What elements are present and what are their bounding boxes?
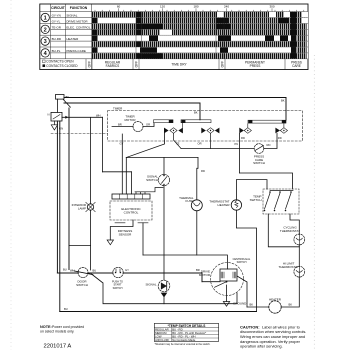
svg-text:HEATER: HEATER	[218, 203, 231, 207]
svg-text:NOTE:: NOTE:	[40, 325, 52, 329]
svg-text:WH: WH	[70, 269, 75, 273]
svg-text:GY-YL: GY-YL	[52, 20, 61, 24]
svg-text:FUSE: FUSE	[185, 199, 193, 203]
perforation dotted edge right	[313, 55, 315, 350]
wire hi-limit to heater	[281, 277, 299, 307]
wire control pin bus	[102, 171, 131, 173]
svg-text:GROUND: GROUND	[233, 302, 247, 306]
timer chart bars row 2b	[92, 30, 308, 35]
svg-text:BK: BK	[289, 303, 293, 307]
svg-text:BK: BK	[250, 303, 254, 307]
wire GY drop to control	[121, 134, 123, 194]
timer chart bars row 1b drive motor	[92, 18, 308, 24]
timer chart bars row 2a elec control	[92, 24, 308, 30]
wire WH from terminal	[62, 116, 103, 118]
wire diagonal from terminal	[63, 99, 70, 107]
chart header text	[51, 6, 88, 10]
wire timer motor to cam bar 1	[143, 123, 154, 127]
drive motor dashed circle	[211, 263, 244, 296]
svg-text:MOTOR: MOTOR	[199, 273, 211, 277]
wire control pin C	[131, 172, 133, 194]
svg-text:on select models only.: on select models only.	[40, 330, 74, 334]
wire left vertical 2	[59, 121, 61, 312]
signal buzzer	[158, 280, 170, 292]
svg-text:GY-YN: GY-YN	[52, 14, 61, 18]
wire lamp vertical upper	[90, 118, 92, 204]
wire control pin header	[135, 188, 163, 195]
svg-text:GY: GY	[125, 268, 129, 272]
timer chart bars row 1a signal	[92, 12, 308, 18]
svg-text:HEATER: HEATER	[66, 37, 79, 41]
bottom bus wire	[60, 311, 257, 313]
wire press care left	[181, 148, 254, 150]
svg-text:TIME DRY: TIME DRY	[171, 62, 187, 66]
wire control to motor feed	[142, 223, 144, 255]
timer contact group G1	[164, 128, 169, 134]
wire left vertical 3	[68, 108, 70, 270]
chart column and row grid	[40, 4, 308, 70]
signal switch	[158, 174, 169, 185]
wire long mid horizontal	[126, 157, 198, 159]
svg-text:SWITCH: SWITCH	[253, 161, 265, 165]
wire supply down to cam bar 3	[285, 98, 287, 121]
svg-text:SWITCH: SWITCH	[250, 198, 262, 202]
svg-text:BU-PL: BU-PL	[52, 49, 61, 53]
svg-text:No Contacts Made: No Contacts Made	[172, 338, 196, 342]
wire G3 drop press care feed	[239, 133, 241, 173]
wire press care right	[264, 133, 277, 148]
timer cam bar 2	[181, 120, 211, 123]
wire color code labels	[48, 95, 293, 311]
wire thermal fuse down	[196, 211, 198, 255]
terminal block L1	[56, 95, 65, 100]
svg-text:RD: RD	[278, 136, 282, 140]
svg-text:OFF: OFF	[220, 61, 224, 67]
svg-text:N: N	[48, 113, 50, 117]
svg-text:BU: BU	[93, 269, 97, 273]
svg-text:OFF: OFF	[87, 61, 91, 67]
perforation dotted edge left	[10, 0, 12, 350]
control terminal strip	[112, 194, 150, 199]
svg-text:BU: BU	[64, 307, 68, 311]
svg-text:operation after servicing.: operation after servicing.	[240, 344, 283, 349]
wire thermostat heater feed	[236, 180, 267, 200]
wire G1 drop and diagonal	[126, 133, 164, 157]
svg-text:RD: RD	[201, 169, 205, 173]
signal switch wire	[163, 158, 165, 281]
svg-text:300: 300	[269, 5, 274, 9]
wire lamp vertical lower	[90, 210, 92, 245]
svg-text:CONTACTS OPEN: CONTACTS OPEN	[46, 60, 74, 64]
svg-text:*Resistor may be internal or e: *Resistor may be internal or external to…	[155, 343, 211, 346]
svg-text:CIRCUIT: CIRCUIT	[51, 6, 66, 10]
bottom U loop	[92, 274, 238, 304]
svg-text:60: 60	[117, 5, 121, 9]
svg-text:OFF: OFF	[134, 61, 138, 67]
wire motor top feed	[143, 255, 227, 269]
wire G2 drop	[210, 133, 212, 148]
wire thermostat heater to motor wrap	[236, 210, 256, 311]
contacts legend	[43, 60, 79, 68]
svg-text:HEATER: HEATER	[269, 297, 282, 301]
chart black column press care	[291, 12, 296, 59]
svg-text:SWITCH: SWITCH	[237, 261, 247, 264]
wire temp switch second exit	[268, 214, 299, 247]
motor centrifugal blade	[226, 281, 228, 283]
svg-text:GY: GY	[120, 142, 124, 146]
svg-text:PRESS-CARE: PRESS-CARE	[66, 49, 86, 53]
wire to temp switch	[240, 173, 293, 189]
wire door switch row	[57, 272, 78, 274]
push to start switch	[113, 267, 123, 277]
timer contact group G2	[201, 128, 206, 134]
drive motor body	[220, 269, 237, 281]
temp switch internals	[270, 190, 293, 192]
wire BK supply top	[64, 97, 286, 99]
svg-text:TIMER: TIMER	[113, 106, 123, 110]
svg-text:GN: GN	[59, 127, 63, 131]
motor left lead	[202, 281, 220, 283]
timer dashed box	[108, 111, 303, 142]
timer chart bars row 3a heater	[92, 36, 288, 42]
bar row separator lines	[92, 18, 308, 53]
circled circuit numbers 1-4	[41, 13, 49, 57]
chart section boundary lines	[136, 12, 224, 59]
wire control pin B	[125, 158, 127, 195]
svg-text:THERMOSTAT: THERMOSTAT	[278, 265, 298, 269]
temp switch dashed box	[263, 189, 299, 214]
svg-text:RD: RD	[241, 136, 245, 140]
svg-text:BK: BK	[281, 99, 285, 103]
svg-text:BR: BR	[196, 268, 200, 272]
thermal fuse feed	[197, 158, 198, 200]
wire cycling to hi-limit	[298, 245, 300, 267]
svg-text:SIGNAL: SIGNAL	[66, 14, 77, 18]
svg-text:OR: OR	[198, 142, 202, 146]
svg-text:3: 3	[44, 39, 47, 45]
wire door to start switch	[88, 272, 113, 274]
svg-text:BR: BR	[118, 123, 122, 127]
svg-text:CARE: CARE	[292, 64, 301, 68]
svg-text:BU: BU	[63, 268, 67, 272]
wire left vertical 1	[56, 121, 58, 273]
svg-text:4: 4	[44, 51, 48, 57]
svg-text:OR: OR	[146, 123, 150, 127]
svg-text:AIR FLUFF: AIR FLUFF	[155, 338, 169, 342]
svg-text:THERMOSTAT: THERMOSTAT	[280, 229, 300, 233]
svg-text:PRESS: PRESS	[250, 64, 261, 68]
svg-text:WH: WH	[96, 114, 101, 118]
svg-text:LAMP: LAMP	[78, 207, 86, 211]
chart outer frame	[40, 4, 308, 70]
svg-text:DRIVE MOTOR: DRIVE MOTOR	[66, 20, 88, 24]
console dashed boundary left	[51, 133, 108, 135]
cycling thermostat	[294, 234, 305, 245]
svg-text:120: 120	[160, 5, 165, 9]
svg-text:RD: RD	[267, 143, 271, 147]
timer motor	[133, 122, 143, 132]
thermal fuse	[191, 200, 202, 211]
right sliver	[307, 12, 308, 59]
svg-text:FABRICS: FABRICS	[106, 64, 120, 68]
svg-text:180: 180	[193, 5, 198, 9]
motor right lead to heater drop	[237, 276, 247, 307]
svg-text:SWITCH: SWITCH	[146, 178, 158, 182]
svg-text:SIGNAL: SIGNAL	[145, 283, 156, 287]
legend row cells	[86, 59, 285, 70]
motor ground	[226, 285, 228, 302]
row 3a right hatch	[297, 36, 309, 42]
wire terminal down	[56, 99, 58, 112]
timer chart bars row 3b	[92, 41, 308, 47]
timer chart bars row 4b	[92, 53, 308, 59]
ground arrow at power cord	[51, 121, 57, 130]
svg-text:BU-RD: BU-RD	[52, 37, 62, 41]
caution text block	[240, 324, 306, 348]
svg-text:TE: TE	[176, 142, 180, 146]
circuit wire code / function labels	[52, 14, 91, 53]
dryness sensor wire and arrow	[110, 220, 133, 240]
svg-text:BK: BK	[194, 111, 198, 115]
press care switch	[254, 144, 264, 154]
svg-text:ELEC. CONTROL: ELEC. CONTROL	[66, 25, 91, 29]
door switch	[78, 268, 88, 278]
thermostat heater	[231, 200, 241, 210]
svg-text:240: 240	[224, 5, 229, 9]
svg-text:SWITCH: SWITCH	[113, 287, 123, 290]
svg-text:FUNCTION: FUNCTION	[70, 6, 88, 10]
wire control feed vertical	[101, 117, 103, 172]
svg-text:2201017 A: 2201017 A	[44, 344, 72, 350]
timer cam bar 1	[154, 120, 174, 123]
svg-text:SWITCH: SWITCH	[76, 283, 88, 287]
svg-text:BK: BK	[66, 95, 70, 99]
timer contact group G4	[275, 128, 280, 134]
chart minute scale ruler	[95, 5, 304, 12]
wire temp switch to cycling thermostat	[290, 214, 299, 234]
wire heater left to motor	[247, 306, 269, 308]
terminal block neutral	[51, 112, 62, 121]
svg-text:CONTROL: CONTROL	[124, 210, 139, 214]
heater	[269, 301, 281, 313]
wire start switch to motor	[123, 273, 202, 282]
svg-text:SENSOR: SENSOR	[119, 232, 133, 236]
timer cam bar 3	[248, 120, 286, 123]
svg-text:CONTACTS CLOSED: CONTACTS CLOSED	[46, 64, 78, 68]
svg-text:2: 2	[44, 27, 47, 33]
wire supply line 2	[64, 103, 200, 120]
note power cord	[40, 325, 84, 334]
hi-limit thermostat	[294, 266, 305, 277]
signal buzzer arrow	[161, 293, 168, 298]
svg-text:PU: PU	[235, 142, 239, 146]
cycle section labels	[87, 60, 302, 68]
svg-text:MOTOR: MOTOR	[124, 118, 136, 122]
wire G1 diamond drop diagonal	[174, 133, 182, 148]
svg-text:1: 1	[44, 16, 47, 22]
wire lamp bypass loop	[69, 246, 91, 271]
timer chart bars row 4a press-care	[92, 47, 228, 53]
row 4a right hatch	[297, 47, 309, 53]
svg-text:TE-OR: TE-OR	[52, 25, 62, 29]
timer contact group G3	[239, 128, 244, 134]
wire into timer motor	[112, 126, 133, 128]
control lower stubs	[115, 222, 148, 224]
temp switch details table	[154, 323, 218, 346]
electronic control box	[110, 201, 152, 220]
interior lamp	[87, 204, 93, 210]
svg-text:Power cord provided: Power cord provided	[52, 325, 84, 329]
